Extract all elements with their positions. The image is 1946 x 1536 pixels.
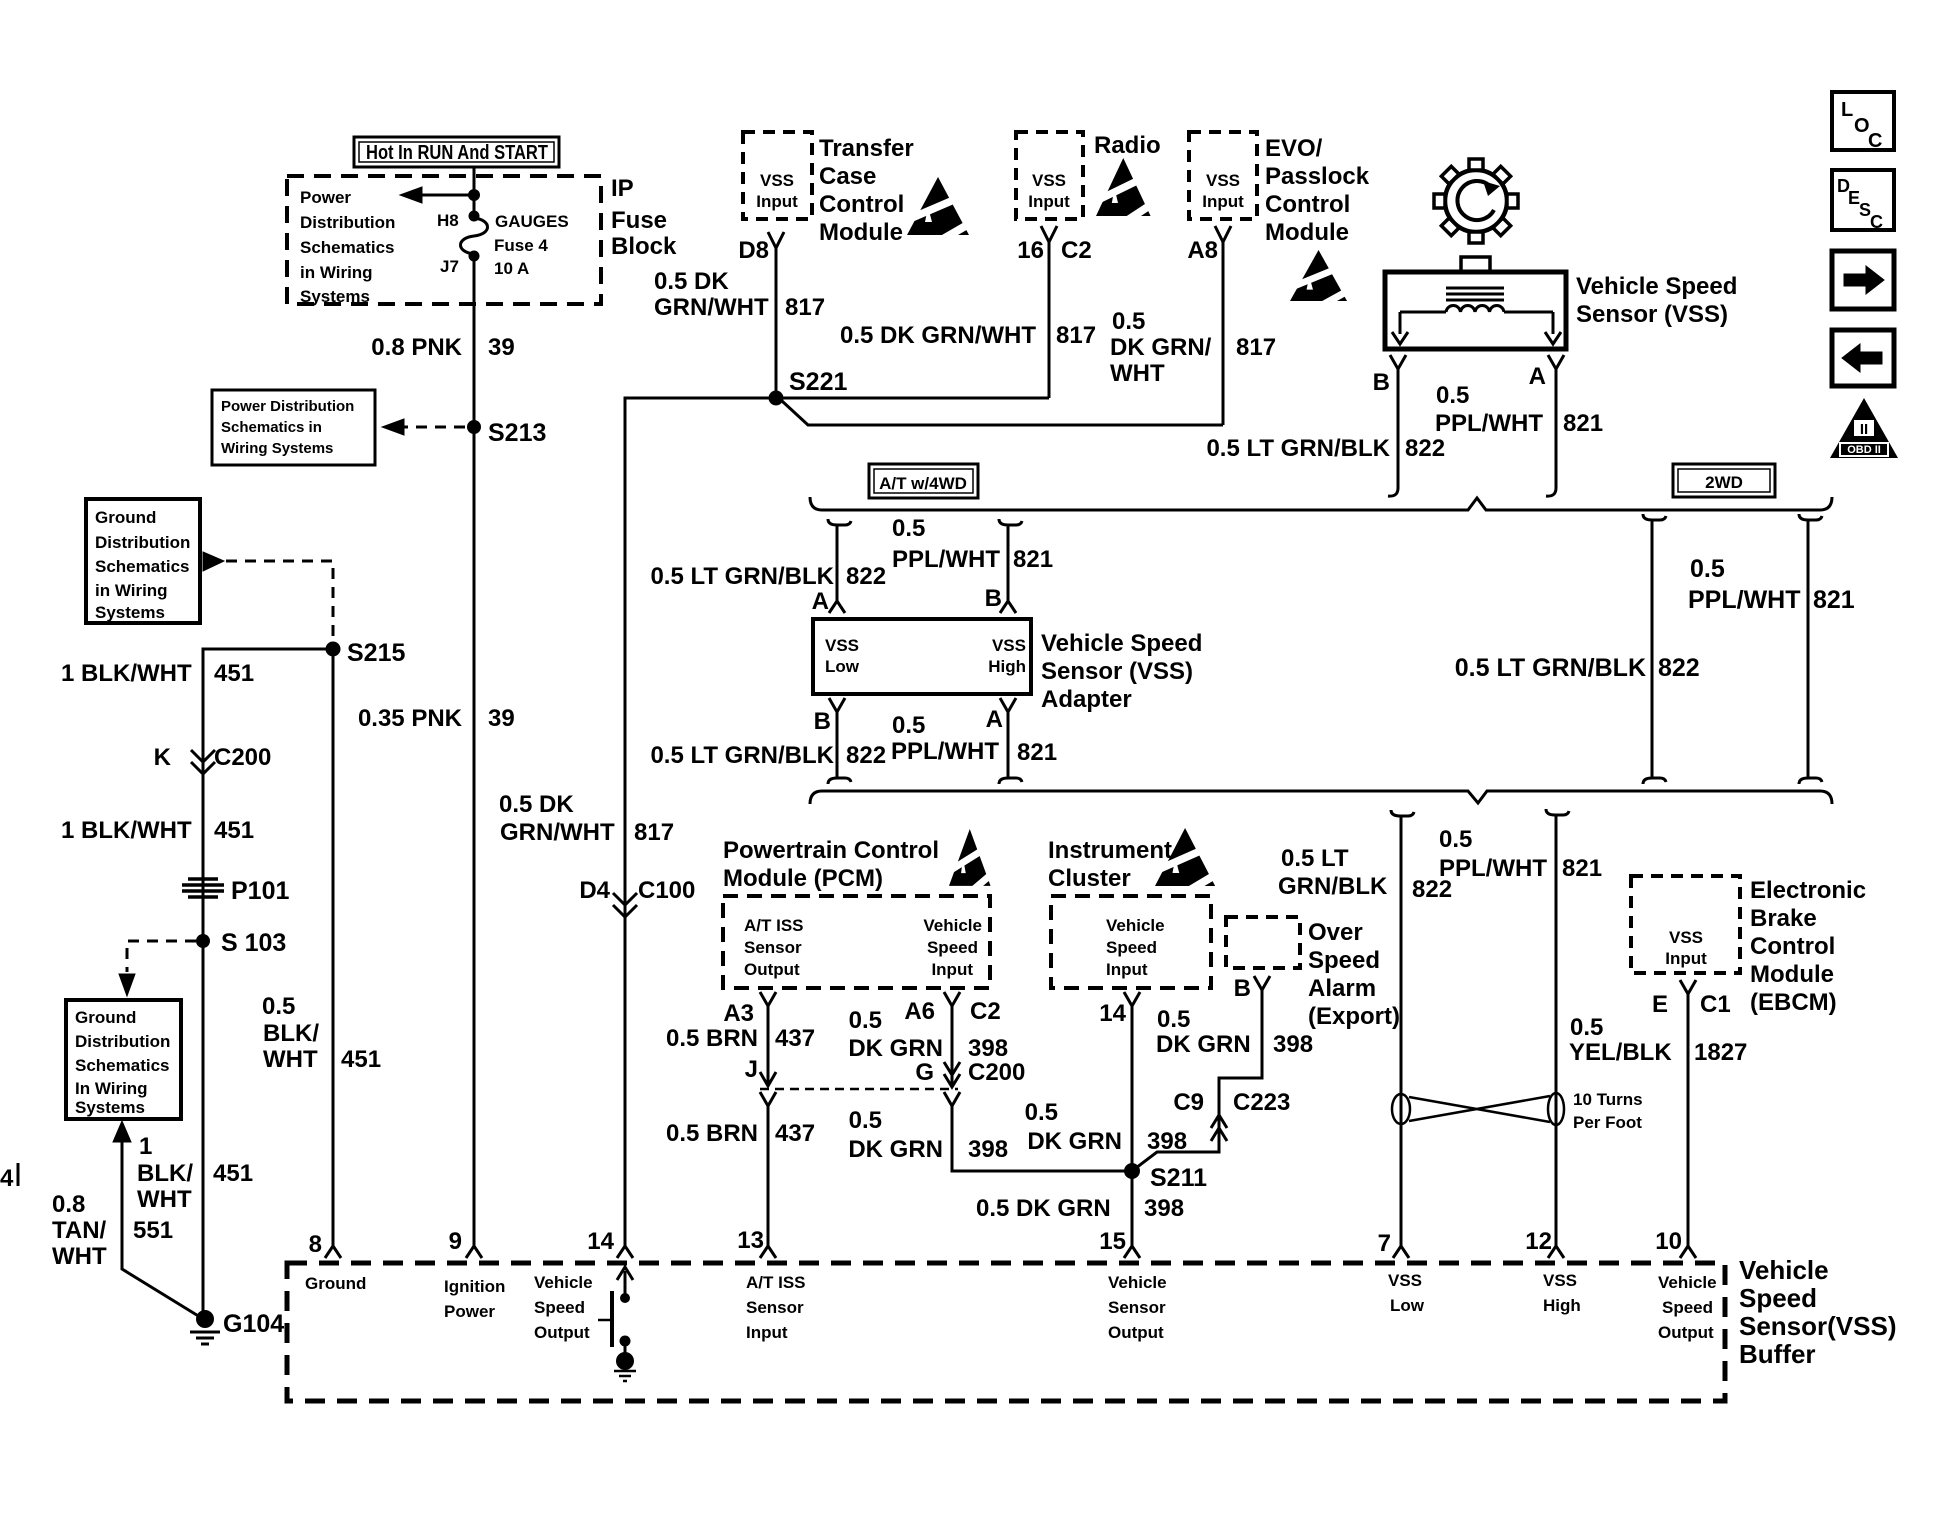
label 0.5 DK GRN 398 below S211 xyxy=(976,1195,1184,1222)
svg-text:14: 14 xyxy=(1099,1000,1126,1027)
svg-text:551: 551 xyxy=(133,1217,173,1244)
svg-text:821: 821 xyxy=(1562,855,1602,882)
C200 terminal G lower half xyxy=(944,1092,960,1114)
buffer pin 8 (Ground) xyxy=(325,1246,341,1258)
svg-text:Schematics: Schematics xyxy=(300,238,395,257)
pin A3 connector xyxy=(760,992,776,1014)
svg-text:D8: D8 xyxy=(738,237,769,264)
svg-text:VSS: VSS xyxy=(1388,1271,1422,1290)
bracket: adapter A terminal bottom (821) xyxy=(999,698,1022,784)
svg-text:A/T ISS: A/T ISS xyxy=(744,916,804,935)
svg-text:J7: J7 xyxy=(440,257,459,276)
svg-text:Control: Control xyxy=(1750,933,1835,960)
svg-text:Radio: Radio xyxy=(1094,132,1161,159)
svg-text:4: 4 xyxy=(0,1165,14,1192)
svg-text:in Wiring: in Wiring xyxy=(300,263,373,282)
instrument cluster dashed box xyxy=(1051,896,1211,988)
svg-text:1: 1 xyxy=(139,1133,152,1160)
svg-text:Fuse: Fuse xyxy=(611,207,667,234)
svg-text:13: 13 xyxy=(737,1227,764,1254)
VSS adapter box xyxy=(813,619,1031,694)
bracket: 2WD 821 wire xyxy=(1799,514,1822,784)
instrument cluster title xyxy=(1048,837,1172,892)
svg-text:PPL/WHT: PPL/WHT xyxy=(1688,586,1801,614)
svg-text:H8: H8 xyxy=(437,211,459,230)
svg-text:In Wiring: In Wiring xyxy=(75,1079,148,1098)
svg-text:0.5 BRN: 0.5 BRN xyxy=(666,1120,758,1147)
svg-text:0.5: 0.5 xyxy=(1436,382,1469,409)
ESD symbol (EVO) xyxy=(1285,250,1354,311)
svg-text:0.5: 0.5 xyxy=(1025,1099,1058,1126)
svg-text:B: B xyxy=(1373,369,1390,396)
svg-text:0.5 DK: 0.5 DK xyxy=(654,268,729,295)
svg-text:0.5: 0.5 xyxy=(1157,1006,1190,1033)
svg-text:K: K xyxy=(154,744,172,771)
svg-text:39: 39 xyxy=(488,334,515,361)
wire 0.5 DK GRN/WHT 817 (A8 down to S221 bus) xyxy=(1222,252,1225,425)
ground distribution ref box (lower) xyxy=(66,1000,181,1119)
svg-text:VSS: VSS xyxy=(1032,171,1066,190)
fuse F4 GAUGES 10A element xyxy=(461,218,488,254)
svg-text:0.5 DK GRN/WHT: 0.5 DK GRN/WHT xyxy=(840,322,1036,349)
svg-text:817: 817 xyxy=(1056,322,1096,349)
2WD tag box xyxy=(1673,464,1775,497)
svg-text:GAUGES: GAUGES xyxy=(495,212,569,231)
wire: S221 diagonal to EVO branch xyxy=(782,401,1223,425)
svg-text:Powertrain Control: Powertrain Control xyxy=(723,837,939,864)
VSS title xyxy=(1576,273,1737,328)
svg-text:821: 821 xyxy=(1563,410,1603,437)
svg-text:C2: C2 xyxy=(970,998,1001,1025)
power distribution ref box (solid) xyxy=(212,390,375,465)
svg-text:Systems: Systems xyxy=(95,603,165,622)
svg-text:Schematics: Schematics xyxy=(95,557,190,576)
EBCM title xyxy=(1750,877,1866,1016)
terminal H8 dot xyxy=(469,211,480,222)
junction dot at fuse feed xyxy=(468,189,480,201)
svg-text:Input: Input xyxy=(1106,960,1148,979)
svg-text:A3: A3 xyxy=(723,1000,754,1027)
svg-text:Per Foot: Per Foot xyxy=(1573,1113,1642,1132)
svg-text:398: 398 xyxy=(1273,1031,1313,1058)
svg-text:A6: A6 xyxy=(904,998,935,1025)
dashed branch from S103 to lower ground ref box xyxy=(127,941,196,972)
svg-text:(Export): (Export) xyxy=(1308,1003,1400,1030)
wire: S221 right to radio branch xyxy=(776,397,1049,400)
bracket: adapter B terminal bottom (822) xyxy=(828,698,851,784)
VSS buffer title xyxy=(1739,1255,1897,1369)
svg-text:A8: A8 xyxy=(1187,237,1218,264)
svg-text:Distribution: Distribution xyxy=(300,213,395,232)
fuse value label xyxy=(494,212,569,278)
svg-text:Input: Input xyxy=(1665,949,1707,968)
svg-text:PPL/WHT: PPL/WHT xyxy=(1439,855,1547,882)
svg-text:IP: IP xyxy=(611,175,634,202)
svg-text:Speed: Speed xyxy=(534,1298,585,1317)
A/T w/4WD tag box xyxy=(869,464,978,498)
connector C200 terminal J (arrow into connector) xyxy=(760,1044,776,1086)
svg-text:398: 398 xyxy=(1144,1195,1184,1222)
sensor core lines xyxy=(1446,288,1504,300)
wire 0.5 PPL/WHT 821 (brace to buffer pin 12) xyxy=(1546,809,1569,1246)
dashed wire to S215 xyxy=(226,561,333,642)
ground G104 xyxy=(196,1310,214,1328)
svg-text:PPL/WHT: PPL/WHT xyxy=(891,738,999,765)
VSS adapter title xyxy=(1041,630,1202,713)
svg-text:II: II xyxy=(1860,421,1868,438)
VSS sensor body xyxy=(1385,272,1566,349)
svg-text:Distribution: Distribution xyxy=(75,1032,170,1051)
svg-text:0.5: 0.5 xyxy=(892,712,925,739)
ESD symbol (radio) xyxy=(1092,158,1158,227)
svg-text:Input: Input xyxy=(1028,192,1070,211)
svg-text:A: A xyxy=(1529,363,1546,390)
pin A6 connector xyxy=(944,992,960,1014)
svg-text:Control: Control xyxy=(819,191,904,218)
wire 0.5 DK GRN 398 (cluster to S211 to pin 15) xyxy=(1131,1014,1134,1246)
svg-text:C: C xyxy=(1868,130,1882,152)
svg-text:Hot In RUN And START: Hot In RUN And START xyxy=(366,142,548,164)
buffer pin 13 (A/T ISS Sensor Input) xyxy=(760,1246,776,1258)
svg-text:G: G xyxy=(915,1059,934,1086)
svg-text:Output: Output xyxy=(1658,1323,1714,1342)
icon: LOC button xyxy=(1832,92,1894,152)
svg-text:Module: Module xyxy=(819,219,903,246)
svg-text:S 103: S 103 xyxy=(221,929,286,957)
svg-text:14: 14 xyxy=(587,1228,614,1255)
svg-text:Alarm: Alarm xyxy=(1308,975,1376,1002)
svg-text:Sensor (VSS): Sensor (VSS) xyxy=(1041,658,1193,685)
svg-text:Instrument: Instrument xyxy=(1048,837,1172,864)
svg-text:Systems: Systems xyxy=(75,1098,145,1117)
svg-text:Passlock: Passlock xyxy=(1265,163,1370,190)
powertrain control module (PCM) title xyxy=(723,837,939,892)
wire 0.5 PPL/WHT 821 (sensor A down to brace) xyxy=(1546,378,1556,496)
svg-text:S215: S215 xyxy=(347,639,405,667)
icon: forward arrow button xyxy=(1832,251,1894,309)
svg-text:9: 9 xyxy=(449,1228,462,1255)
buffer pin 7 (VSS Low) xyxy=(1393,1246,1409,1258)
label 1 BLK/WHT 451 (below C200) xyxy=(61,817,254,844)
svg-text:Speed: Speed xyxy=(1662,1298,1713,1317)
svg-text:C9: C9 xyxy=(1173,1089,1204,1116)
svg-text:Systems: Systems xyxy=(300,287,370,306)
svg-text:Electronic: Electronic xyxy=(1750,877,1866,904)
svg-text:Over: Over xyxy=(1308,919,1363,946)
pin E C1 connector (EBCM) xyxy=(1680,980,1696,1002)
bracket: 2WD 822 wire xyxy=(1643,514,1666,784)
svg-text:Vehicle: Vehicle xyxy=(923,916,982,935)
svg-text:Sensor: Sensor xyxy=(744,938,802,957)
arrow out of ground ref box xyxy=(203,552,224,571)
splice S221 xyxy=(769,391,784,406)
svg-text:16: 16 xyxy=(1017,237,1044,264)
svg-text:Speed: Speed xyxy=(1308,947,1380,974)
wire 0.8 TAN/WHT 551 to G104 xyxy=(122,1142,200,1317)
svg-text:BLK/: BLK/ xyxy=(263,1020,319,1047)
svg-text:817: 817 xyxy=(634,819,674,846)
icon: DESC button xyxy=(1832,170,1894,232)
svg-text:VSS: VSS xyxy=(1669,928,1703,947)
svg-text:0.8: 0.8 xyxy=(52,1191,85,1218)
svg-text:Output: Output xyxy=(744,960,800,979)
buffer output switch symbol xyxy=(598,1267,636,1381)
svg-text:Vehicle: Vehicle xyxy=(1108,1273,1167,1292)
labels 2WD wires xyxy=(1455,555,1855,682)
svg-text:GRN/WHT: GRN/WHT xyxy=(654,294,769,321)
svg-text:E: E xyxy=(1652,991,1668,1018)
connector C200 terminal K (double chevron) xyxy=(191,750,215,774)
wire 0.5 YEL/BLK 1827 (EBCM to buffer pin 10) xyxy=(1687,1002,1690,1246)
svg-text:C2: C2 xyxy=(1061,237,1092,264)
svg-text:822: 822 xyxy=(846,563,886,590)
label 0.5 DK GRN 398 (over speed wire) xyxy=(1156,1006,1313,1058)
label 0.8 PNK 39 xyxy=(371,334,514,361)
svg-text:0.5: 0.5 xyxy=(1690,555,1725,583)
page-edge cropped label xyxy=(0,1165,14,1192)
svg-text:B: B xyxy=(985,585,1002,612)
bracket: adapter A terminal top (822) xyxy=(828,519,851,613)
svg-text:0.5: 0.5 xyxy=(1112,308,1145,335)
svg-text:D4: D4 xyxy=(579,877,610,904)
svg-text:Vehicle: Vehicle xyxy=(1739,1255,1829,1285)
svg-text:C200: C200 xyxy=(214,744,271,771)
svg-text:Control: Control xyxy=(1265,191,1350,218)
svg-text:Speed: Speed xyxy=(927,938,978,957)
buffer pin 14 (Vehicle Speed Output) xyxy=(617,1246,633,1258)
svg-text:822: 822 xyxy=(1405,435,1445,462)
svg-text:Cluster: Cluster xyxy=(1048,865,1131,892)
svg-text:398: 398 xyxy=(968,1136,1008,1163)
svg-text:Module (PCM): Module (PCM) xyxy=(723,865,883,892)
svg-text:S213: S213 xyxy=(488,419,546,447)
svg-text:G104: G104 xyxy=(223,1310,284,1338)
dashed arrow from S213 to ref box xyxy=(404,426,465,429)
svg-text:Schematics in: Schematics in xyxy=(221,419,322,436)
svg-text:2WD: 2WD xyxy=(1705,473,1743,492)
svg-text:10 Turns: 10 Turns xyxy=(1573,1090,1643,1109)
svg-text:0.5: 0.5 xyxy=(892,515,925,542)
connector C223 terminal C9 (double chevron up) xyxy=(1211,1115,1227,1141)
svg-text:VSS: VSS xyxy=(992,636,1026,655)
svg-text:P101: P101 xyxy=(231,877,289,905)
svg-text:Brake: Brake xyxy=(1750,905,1817,932)
sensor top tab xyxy=(1461,257,1490,272)
EVO/passlock title xyxy=(1265,135,1370,246)
svg-text:DK GRN: DK GRN xyxy=(1027,1128,1122,1155)
svg-text:Low: Low xyxy=(825,657,860,676)
svg-text:VSS: VSS xyxy=(1543,1271,1577,1290)
sensor pin A connector xyxy=(1548,355,1564,378)
EVO/passlock control module VSS input dashed box xyxy=(1189,132,1257,219)
svg-text:C100: C100 xyxy=(638,877,695,904)
svg-text:S221: S221 xyxy=(789,368,847,396)
svg-text:Sensor(VSS): Sensor(VSS) xyxy=(1739,1311,1897,1341)
labels bottom adapter wires xyxy=(650,706,1057,769)
svg-text:DK GRN/: DK GRN/ xyxy=(1110,334,1212,361)
svg-text:Vehicle: Vehicle xyxy=(1658,1273,1717,1292)
svg-text:Power: Power xyxy=(300,188,351,207)
wire: feed into fuse from Hot In RUN xyxy=(473,168,476,216)
svg-text:High: High xyxy=(1543,1296,1581,1315)
svg-text:Power Distribution: Power Distribution xyxy=(221,398,354,415)
svg-text:822: 822 xyxy=(1658,654,1700,682)
svg-text:821: 821 xyxy=(1813,586,1855,614)
pin A8 connector xyxy=(1215,226,1231,252)
svg-text:Vehicle: Vehicle xyxy=(1106,916,1165,935)
svg-text:822: 822 xyxy=(846,742,886,769)
wire 0.5 DK GRN 398 (G down and right to S211) xyxy=(952,1114,1132,1171)
internal arrows to pins xyxy=(1392,332,1408,344)
svg-text:A: A xyxy=(812,588,829,615)
arrow into lower ground ref box (0.8 TAN/WHT wire) xyxy=(113,1121,131,1142)
splice S103 xyxy=(196,934,210,948)
labels top adapter wires xyxy=(650,515,1053,615)
svg-text:J: J xyxy=(745,1056,758,1083)
splice S213 xyxy=(467,420,481,434)
wire 0.5 LT GRN/BLK 822 (sensor B down to brace) xyxy=(1388,378,1398,496)
wire: 0.8 PNK 39 from fuse down to S213 xyxy=(473,256,476,427)
svg-text:Sensor: Sensor xyxy=(1108,1298,1166,1317)
ESD symbol (transfer case) xyxy=(902,177,977,246)
svg-text:0.5 DK: 0.5 DK xyxy=(499,791,574,818)
svg-text:in Wiring: in Wiring xyxy=(95,581,168,600)
svg-text:12: 12 xyxy=(1525,1228,1552,1255)
rotation arrow inside gear xyxy=(1457,181,1494,220)
svg-text:Speed: Speed xyxy=(1106,938,1157,957)
svg-text:C200: C200 xyxy=(968,1059,1025,1086)
svg-text:451: 451 xyxy=(213,1160,253,1187)
svg-text:8: 8 xyxy=(309,1231,322,1258)
svg-text:GRN/BLK: GRN/BLK xyxy=(1278,873,1388,900)
ground distribution ref box (upper) xyxy=(86,499,200,623)
svg-text:Ground: Ground xyxy=(75,1008,136,1027)
svg-text:0.8 PNK: 0.8 PNK xyxy=(371,334,462,361)
vehicle speed sensor (VSS) buffer dashed box xyxy=(287,1263,1725,1401)
svg-text:A: A xyxy=(986,706,1003,733)
PCM dashed box xyxy=(723,896,990,988)
pin 16 C2 connector xyxy=(1041,226,1057,252)
svg-text:Ignition: Ignition xyxy=(444,1277,505,1296)
svg-text:0.5: 0.5 xyxy=(849,1007,882,1034)
transfer case control module VSS input dashed box xyxy=(743,132,812,219)
svg-text:Output: Output xyxy=(534,1323,590,1342)
svg-text:Sensor (VSS): Sensor (VSS) xyxy=(1576,301,1728,328)
svg-text:PPL/WHT: PPL/WHT xyxy=(892,546,1000,573)
svg-text:Module: Module xyxy=(1265,219,1349,246)
svg-text:WHT: WHT xyxy=(137,1186,192,1213)
wire 0.5 LT GRN/BLK 822 (brace to buffer pin 7) xyxy=(1391,810,1414,1246)
svg-text:0.5: 0.5 xyxy=(1439,826,1472,853)
svg-text:Ground: Ground xyxy=(95,508,156,527)
svg-text:437: 437 xyxy=(775,1025,815,1052)
svg-text:Distribution: Distribution xyxy=(95,533,190,552)
svg-text:0.5 LT GRN/BLK: 0.5 LT GRN/BLK xyxy=(650,563,834,590)
svg-text:821: 821 xyxy=(1013,546,1053,573)
wire 0.5 DK GRN/WHT 817 (C2 to S221 bus) xyxy=(1048,252,1051,398)
wire S211 up to C223 and over speed alarm B xyxy=(1132,992,1262,1171)
over speed alarm dashed box xyxy=(1226,917,1300,968)
svg-text:1 BLK/WHT: 1 BLK/WHT xyxy=(61,817,192,844)
electronic brake control module (EBCM) dashed box xyxy=(1631,876,1740,973)
wire 0.5 DK GRN/WHT 817 (D8 to S221) xyxy=(775,258,778,398)
ESD symbol (PCM) xyxy=(946,829,996,897)
label 0.5 DK GRN 398 (cluster wire) xyxy=(1025,1099,1187,1155)
buffer pin 10 (Vehicle Speed Output) xyxy=(1680,1246,1696,1258)
svg-text:Speed: Speed xyxy=(1739,1283,1817,1313)
svg-text:Fuse 4: Fuse 4 xyxy=(494,236,548,255)
svg-text:VSS: VSS xyxy=(825,636,859,655)
svg-text:Low: Low xyxy=(1390,1296,1425,1315)
svg-text:A/T ISS: A/T ISS xyxy=(746,1273,806,1292)
grommet P101 xyxy=(182,879,224,897)
svg-text:0.5 LT GRN/BLK: 0.5 LT GRN/BLK xyxy=(1206,435,1390,462)
connector C100 terminal D4 (double chevron) xyxy=(613,893,637,917)
svg-text:EVO/: EVO/ xyxy=(1265,135,1323,162)
twisted pair symbol (10 turns per foot) xyxy=(1392,1093,1564,1125)
svg-text:VSS: VSS xyxy=(760,171,794,190)
svg-text:10: 10 xyxy=(1655,1228,1682,1255)
buffer pin 12 (VSS High) xyxy=(1548,1246,1564,1258)
wire 0.5 DK GRN 398 (A6 to C200 G) xyxy=(951,1014,954,1087)
svg-text:Block: Block xyxy=(611,233,677,260)
icon: OBD II triangle xyxy=(1830,398,1898,458)
svg-text:WHT: WHT xyxy=(1110,360,1165,387)
svg-text:S211: S211 xyxy=(1150,1164,1207,1192)
splice S211 xyxy=(1124,1163,1140,1179)
svg-text:Adapter: Adapter xyxy=(1041,686,1132,713)
svg-text:Input: Input xyxy=(746,1323,788,1342)
wire 0.5 BRN 437 (A3 to C200 J) xyxy=(767,1014,770,1070)
svg-text:821: 821 xyxy=(1017,739,1057,766)
svg-text:VSS: VSS xyxy=(1206,171,1240,190)
label 0.35 PNK 39 xyxy=(358,705,515,732)
wire: S221 left then down to C100 (0.5 DK GRN/WHT 817) xyxy=(625,398,776,1246)
svg-text:B: B xyxy=(814,708,831,735)
IP fuse block ref text xyxy=(300,188,395,306)
svg-text:0.5: 0.5 xyxy=(262,993,295,1020)
arrow branch to power distribution (left arrow) xyxy=(420,194,474,197)
svg-text:YEL/BLK: YEL/BLK xyxy=(1569,1039,1672,1066)
svg-text:C: C xyxy=(1870,212,1883,232)
svg-text:WHT: WHT xyxy=(52,1243,107,1270)
label 1 BLK/WHT 451 xyxy=(137,1133,253,1213)
gear icon xyxy=(1434,159,1518,243)
svg-text:451: 451 xyxy=(214,817,254,844)
svg-text:Buffer: Buffer xyxy=(1739,1339,1816,1369)
svg-text:GRN/WHT: GRN/WHT xyxy=(500,819,615,846)
svg-text:Vehicle Speed: Vehicle Speed xyxy=(1576,273,1737,300)
svg-text:15: 15 xyxy=(1099,1228,1126,1255)
svg-text:C1: C1 xyxy=(1700,991,1731,1018)
svg-text:Schematics: Schematics xyxy=(75,1056,170,1075)
C200 inline connector dashed line xyxy=(760,1088,958,1091)
svg-text:0.5 LT GRN/BLK: 0.5 LT GRN/BLK xyxy=(1455,654,1646,682)
svg-text:Transfer: Transfer xyxy=(819,135,914,162)
buffer pin 15 (Vehicle Sensor Output) xyxy=(1124,1246,1140,1258)
pin D8 connector xyxy=(768,232,784,258)
top selection brace xyxy=(810,497,1832,510)
wire: 0.5 BLK/WHT 451 from S215 down to buffer pin 8 xyxy=(332,649,335,1246)
svg-text:Ground: Ground xyxy=(305,1274,366,1293)
svg-text:451: 451 xyxy=(214,660,254,687)
svg-text:39: 39 xyxy=(488,705,515,732)
terminal J7 dot xyxy=(469,251,480,262)
sensor coil and internal leads xyxy=(1400,306,1553,334)
svg-text:WHT: WHT xyxy=(263,1046,318,1073)
svg-text:C223: C223 xyxy=(1233,1089,1290,1116)
svg-text:DK GRN: DK GRN xyxy=(848,1035,943,1062)
